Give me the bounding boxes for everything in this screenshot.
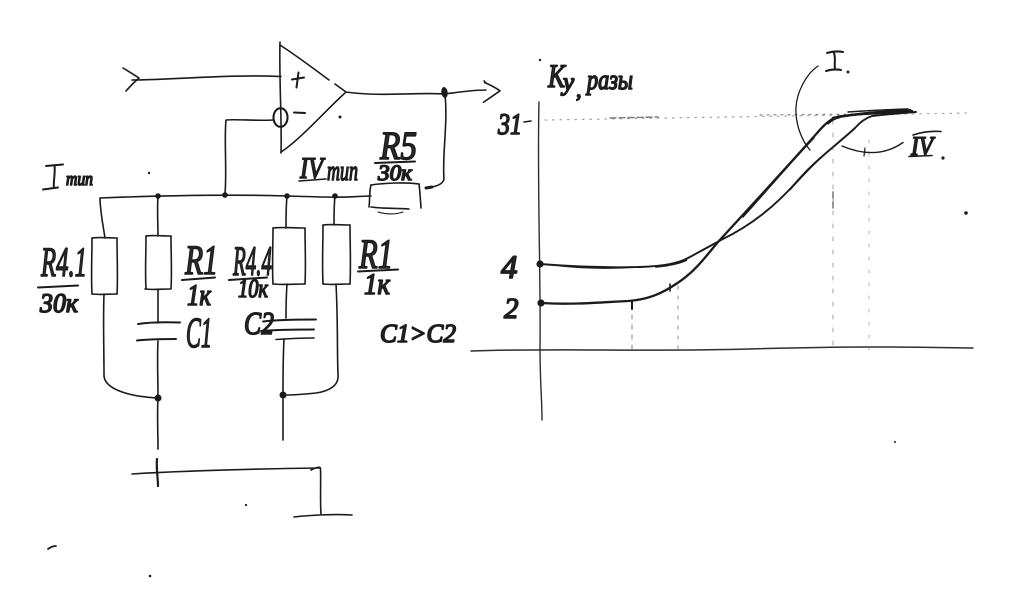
- label R4.1 value 30к: [38, 240, 87, 318]
- resistor R1b: [323, 225, 351, 285]
- svg-text:,: ,: [576, 77, 582, 102]
- label R5 value 30к: [375, 123, 417, 185]
- junction bus C: [284, 193, 290, 199]
- junction bus D: [332, 193, 338, 199]
- wire R4.4 to C2: [286, 284, 287, 318]
- resistor R5: [369, 183, 421, 214]
- svg-text:10к: 10к: [238, 274, 269, 303]
- resistor R4.4: [273, 228, 306, 285]
- wire C2 to junction: [283, 339, 284, 394]
- wire bus to R1a: [157, 196, 159, 236]
- wire R1a to C1: [157, 289, 159, 323]
- curve flat 4 extra stroke: [560, 266, 650, 268]
- dashed vertical v3: [832, 120, 834, 350]
- junction bus A: [155, 193, 161, 199]
- dotted level line 31: [545, 113, 970, 120]
- junction output node: [441, 87, 449, 99]
- svg-text:у: у: [560, 69, 575, 96]
- label I тип: [43, 165, 93, 191]
- axis Y: [538, 102, 542, 420]
- tick below v2: [669, 284, 671, 291]
- label R1a value 1к: [182, 238, 218, 312]
- curve top plateau thick: [833, 110, 910, 118]
- wire output: [346, 92, 444, 94]
- junction bus B: [222, 192, 228, 198]
- leader IV tick: [864, 148, 865, 156]
- curve IV: [540, 112, 916, 267]
- start dot curve I: [537, 299, 544, 306]
- svg-text:R4.1: R4.1: [40, 240, 87, 286]
- dotted level line 31 darker part: [760, 114, 868, 115]
- wire junction down stub: [157, 398, 159, 449]
- wire C1 to junction: [157, 341, 159, 397]
- label 31: [497, 108, 531, 141]
- label R4.4 value 10к: [229, 239, 272, 303]
- tick below v1: [631, 301, 633, 309]
- dashed vertical v4: [868, 140, 870, 350]
- wire input: [123, 68, 281, 91]
- wire bus to R4.4: [286, 196, 287, 228]
- resistor R1a: [145, 236, 171, 290]
- curve IV extra stroke: [790, 140, 842, 190]
- speck dash: [48, 546, 56, 549]
- svg-text:тип: тип: [66, 169, 93, 190]
- svg-text:тип: тип: [327, 156, 358, 187]
- wire bus to R1b: [334, 196, 335, 225]
- svg-text:2: 2: [504, 293, 519, 325]
- resistor R4.1: [92, 238, 118, 295]
- wire R1b bottom to junction 2: [286, 284, 338, 395]
- svg-text:1к: 1к: [364, 268, 391, 301]
- svg-text:C2: C2: [244, 305, 274, 341]
- svg-text:C1>C2: C1>C2: [380, 319, 456, 348]
- wire output to R5: [432, 94, 446, 187]
- label R1b value 1к: [358, 232, 398, 301]
- svg-text:1к: 1к: [187, 279, 212, 312]
- arrowhead output: [484, 83, 501, 103]
- leader line IV: [842, 143, 903, 153]
- svg-text:30к: 30к: [39, 288, 78, 318]
- wire to arrow: [445, 90, 486, 94]
- wire inverting input to bus: [225, 120, 273, 194]
- curve I: [541, 111, 912, 304]
- dashed vertical v1: [631, 305, 633, 350]
- svg-text:30к: 30к: [377, 160, 413, 185]
- dashed vertical v2: [677, 286, 679, 350]
- label IV тип: [299, 152, 358, 187]
- leader line I: [796, 66, 818, 150]
- start dot curve IV: [536, 260, 543, 267]
- svg-text:C1: C1: [186, 310, 212, 357]
- capacitor C2: [261, 320, 316, 340]
- wire bus: [100, 195, 371, 198]
- wire bus left end down: [100, 198, 105, 238]
- speck marks: [148, 59, 968, 578]
- label I: [826, 51, 850, 73]
- label Ку разы: [547, 59, 633, 102]
- axis X: [471, 347, 973, 351]
- label IV: [909, 131, 945, 161]
- wire junction 2 down stub: [282, 395, 284, 440]
- capacitor C1: [137, 322, 180, 340]
- op-amp U1: [274, 42, 347, 153]
- ground bus bottom: [132, 459, 352, 517]
- junction ground node 2: [280, 392, 287, 399]
- junction ground node 1: [155, 395, 162, 402]
- svg-text:4: 4: [501, 250, 518, 286]
- svg-text:31: 31: [497, 108, 522, 141]
- wire R4.1 bottom to junction: [104, 294, 157, 398]
- svg-text:разы: разы: [585, 65, 633, 96]
- curve I extra stroke: [743, 138, 814, 217]
